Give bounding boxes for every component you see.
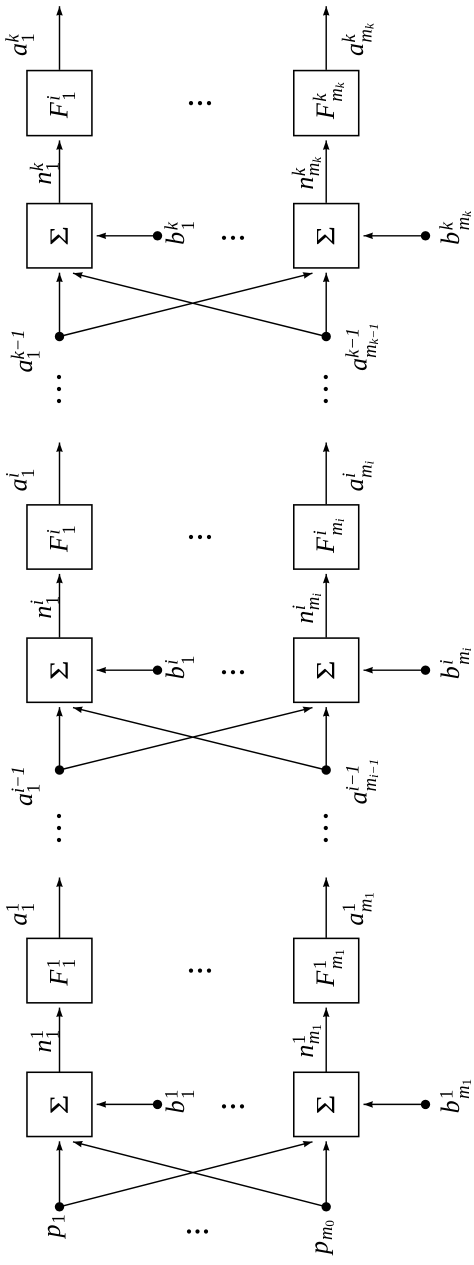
wire bias to sum layeri row2 xyxy=(364,669,426,671)
transfer box layer1 row1 xyxy=(27,938,92,1002)
svg-text:n11: n11 xyxy=(28,1030,64,1053)
wire input to sum layer1 row1 xyxy=(59,1141,61,1207)
svg-text:Σ: Σ xyxy=(311,1095,341,1115)
svg-text:akmk: akmk xyxy=(340,23,377,56)
svg-text:nkmk: nkmk xyxy=(290,157,324,190)
wire input to sum layerk row2 xyxy=(325,273,327,337)
node input dot layerk row2 xyxy=(322,332,331,341)
ellipsis between layeri and layerk row2 xyxy=(324,375,328,403)
wire cross input row1 to sum row2 layerk xyxy=(60,273,313,336)
transfer box layerk row1 xyxy=(27,71,92,136)
svg-text:Σ: Σ xyxy=(44,226,74,246)
svg-text:bkmk: bkmk xyxy=(436,211,474,245)
wire input to sum layerk row1 xyxy=(59,273,61,337)
svg-text:nimi: nimi xyxy=(290,593,324,624)
svg-text:p1: p1 xyxy=(37,1214,70,1239)
node bias dot layer1 row2 xyxy=(421,1100,430,1109)
svg-text:ak−1mk−1: ak−1mk−1 xyxy=(344,323,382,370)
wire sum to F layerk row2 xyxy=(325,140,327,202)
svg-text:bk1: bk1 xyxy=(161,221,199,245)
wire F to output layerk row2 xyxy=(325,6,327,70)
sum box layer1 row2 xyxy=(294,1072,359,1136)
wire F to output layeri row1 xyxy=(59,443,61,505)
svg-text:n1m1: n1m1 xyxy=(290,1024,324,1057)
svg-text:Σ: Σ xyxy=(44,660,74,680)
wire bias to sum layerk row2 xyxy=(364,235,426,237)
transfer box layeri row2 xyxy=(294,505,359,569)
wire bias to sum layer1 row1 xyxy=(97,1103,158,1105)
wire cross input row2 to sum row1 layerk xyxy=(73,273,326,336)
svg-text:ai−11: ai−11 xyxy=(9,766,45,806)
wire sum to F layer1 row1 xyxy=(59,1008,61,1072)
transfer box layeri row1 xyxy=(27,505,92,569)
svg-text:aimi: aimi xyxy=(340,460,377,491)
svg-text:Σ: Σ xyxy=(311,226,341,246)
wire sum to F layer1 row2 xyxy=(325,1008,327,1072)
node bias dot layerk row2 xyxy=(421,231,430,240)
svg-text:ni1: ni1 xyxy=(28,596,64,619)
svg-text:a1m1: a1m1 xyxy=(340,892,377,925)
node input dot layeri row1 xyxy=(55,765,64,774)
svg-text:ai1: ai1 xyxy=(4,469,40,492)
sum box layerk row2 xyxy=(294,204,359,268)
ellipsis F column layeri xyxy=(189,535,211,539)
node input dot layer1 row2 xyxy=(322,1202,331,1211)
transfer box layerk row2 xyxy=(294,71,359,136)
wire cross input row2 to sum row1 layeri xyxy=(73,708,326,770)
svg-text:bimi: bimi xyxy=(436,647,474,679)
ellipsis sum column layeri xyxy=(222,670,244,674)
wire bias to sum layer1 row2 xyxy=(364,1103,426,1105)
ellipsis sum column layerk xyxy=(222,236,244,240)
svg-text:ai−1mi−1: ai−1mi−1 xyxy=(344,759,382,804)
wire sum to F layerk row1 xyxy=(59,140,61,202)
svg-text:nk1: nk1 xyxy=(28,162,64,185)
wire cross input row1 to sum row2 layer1 xyxy=(60,1142,313,1207)
ellipsis between layer1 and layeri row1 xyxy=(57,814,61,842)
wire bias to sum layerk row1 xyxy=(97,235,158,237)
wire input to sum layer1 row2 xyxy=(325,1141,327,1207)
svg-text:ak−11: ak−11 xyxy=(9,330,45,373)
node input dot layerk row1 xyxy=(55,332,64,341)
svg-text:ak1: ak1 xyxy=(4,33,40,56)
wire F to output layer1 row1 xyxy=(59,878,61,938)
wire bias to sum layeri row1 xyxy=(97,669,158,671)
svg-text:b11: b11 xyxy=(161,1090,199,1114)
sum box layerk row1 xyxy=(27,204,92,268)
ellipsis sum column layer1 xyxy=(222,1104,244,1108)
wire sum to F layeri row1 xyxy=(59,574,61,637)
node input dot layer1 row1 xyxy=(55,1202,64,1211)
sum box layer1 row1 xyxy=(27,1072,92,1136)
sum box layeri row1 xyxy=(27,638,92,702)
node input dot layeri row2 xyxy=(322,765,331,774)
svg-text:Σ: Σ xyxy=(311,660,341,680)
svg-text:Σ: Σ xyxy=(44,1095,74,1115)
wire F to output layerk row1 xyxy=(59,6,61,70)
sum box layeri row2 xyxy=(294,638,359,702)
ellipsis p column xyxy=(187,1229,208,1233)
wire cross input row2 to sum row1 layer1 xyxy=(73,1142,326,1207)
svg-text:pm0: pm0 xyxy=(305,1220,338,1256)
node bias dot layeri row2 xyxy=(421,666,430,675)
transfer box layer1 row2 xyxy=(294,938,359,1002)
node bias dot layeri row1 xyxy=(153,666,162,675)
wire input to sum layeri row2 xyxy=(325,707,327,770)
wire F to output layer1 row2 xyxy=(325,878,327,938)
ellipsis between layeri and layerk row1 xyxy=(57,375,61,403)
wire cross input row1 to sum row2 layeri xyxy=(60,708,313,770)
wire sum to F layeri row2 xyxy=(325,574,327,637)
node bias dot layer1 row1 xyxy=(153,1100,162,1109)
svg-text:a11: a11 xyxy=(4,903,40,926)
ellipsis F column layer1 xyxy=(189,969,211,973)
svg-text:bi1: bi1 xyxy=(161,655,199,679)
wire input to sum layeri row1 xyxy=(59,707,61,770)
wire F to output layeri row2 xyxy=(325,443,327,505)
ellipsis F column layerk xyxy=(189,101,211,105)
node bias dot layerk row1 xyxy=(153,231,162,240)
ellipsis between layer1 and layeri row2 xyxy=(324,814,328,842)
svg-text:b1m1: b1m1 xyxy=(436,1079,474,1113)
